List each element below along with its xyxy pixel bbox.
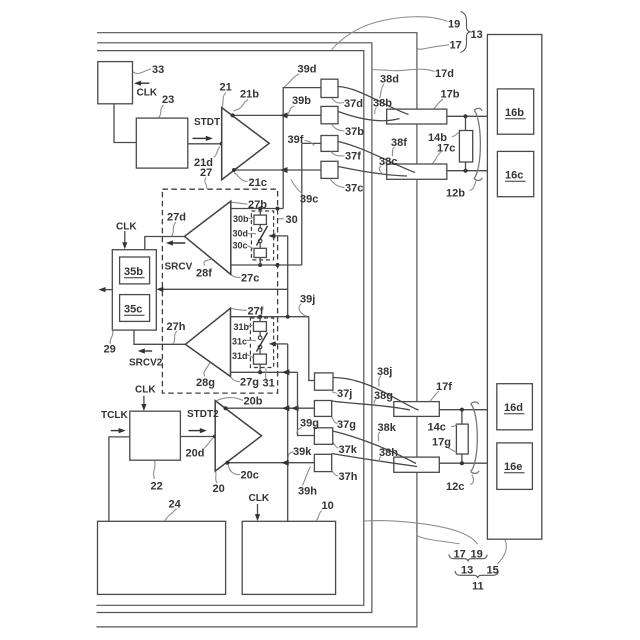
block 16e xyxy=(497,443,533,490)
svg-text:CLK: CLK xyxy=(137,88,158,99)
wire bus line 17d (middle frame) xyxy=(97,43,372,613)
svg-text:31c: 31c xyxy=(232,337,247,347)
block 10 (bottom microcontroller box) xyxy=(242,521,335,594)
wire receiver 27d top input xyxy=(231,208,283,210)
leader 30c xyxy=(247,246,254,250)
leader 38k xyxy=(378,432,380,442)
svg-text:20c: 20c xyxy=(241,470,259,482)
svg-text:30: 30 xyxy=(286,214,298,226)
svg-text:27g: 27g xyxy=(240,377,259,389)
svg-text:10: 10 xyxy=(322,500,334,512)
leader 21c xyxy=(234,173,248,182)
leader 37c xyxy=(330,179,345,188)
leader 37g xyxy=(332,417,338,424)
wire 39d vertical (node V1) xyxy=(283,88,321,209)
leader 37h xyxy=(332,470,339,476)
block 33 xyxy=(98,62,133,104)
svg-text:37f: 37f xyxy=(345,151,361,163)
wire block 33 to block 23 xyxy=(114,104,136,143)
switch box 37f xyxy=(321,136,338,152)
svg-text:39g: 39g xyxy=(300,418,319,430)
CLK arrow into block 29 xyxy=(124,231,126,246)
leader 39d xyxy=(284,74,299,87)
svg-text:39j: 39j xyxy=(300,294,315,306)
leader 37b xyxy=(332,125,345,132)
arrowhead on wire 39c xyxy=(280,167,288,173)
TCLK wire from block 24 up into block 22 xyxy=(109,437,130,521)
STDT arrow xyxy=(193,137,209,139)
leader 14c xyxy=(451,424,457,426)
underline 35b xyxy=(124,277,145,279)
svg-text:35b: 35b xyxy=(124,266,143,278)
svg-text:28g: 28g xyxy=(196,377,215,389)
wire curve 38c: switch 37c to connector 38c xyxy=(338,167,407,177)
wire into block 29 right side (from node 39f net) with arrowhead xyxy=(160,288,288,290)
svg-text:13: 13 xyxy=(471,29,483,41)
svg-text:16c: 16c xyxy=(505,170,523,182)
leader 37f xyxy=(331,152,345,157)
node dots bus 17f/17g xyxy=(460,408,464,412)
svg-text:39k: 39k xyxy=(293,446,312,458)
wire bus 17b to block 15 xyxy=(447,115,488,117)
svg-text:39c: 39c xyxy=(300,194,318,206)
leader 39j xyxy=(299,304,306,317)
leader 29 xyxy=(110,331,113,345)
leader 12b xyxy=(470,181,477,191)
arrowhead on receiver 27h bottom wire xyxy=(282,369,290,375)
svg-text:24: 24 xyxy=(169,499,182,511)
node dot at amp 20 input xyxy=(213,435,217,439)
leader 39f xyxy=(305,141,315,146)
leader 37k xyxy=(333,442,339,449)
svg-text:22: 22 xyxy=(151,481,163,493)
wire curve 38k: switch 37k to connector 38h xyxy=(333,431,416,464)
underbrace under 13 15 xyxy=(455,571,498,578)
leader 17 top xyxy=(417,45,449,49)
block 16b xyxy=(497,89,533,134)
node dots bus 17b/17c xyxy=(463,114,467,118)
block 24 (bottom left box) xyxy=(98,521,226,594)
node dot on amp 20 top slope xyxy=(224,406,228,410)
leader 17 bottom xyxy=(418,536,460,544)
svg-text:20: 20 xyxy=(213,483,225,495)
svg-text:33: 33 xyxy=(152,64,164,76)
leader 39k xyxy=(288,452,293,458)
connector bar 38g xyxy=(394,402,440,417)
switch box 37c xyxy=(321,161,338,178)
svg-text:16e: 16e xyxy=(504,461,522,473)
svg-text:17: 17 xyxy=(454,549,466,561)
switch 31c blade xyxy=(257,333,268,352)
svg-text:15: 15 xyxy=(487,565,499,577)
wire chain 30 xyxy=(259,209,261,216)
leader 27c xyxy=(231,275,240,278)
leader 17g xyxy=(446,446,457,452)
wire 39j: receiver 27h top net down to switch 37j xyxy=(309,317,315,381)
leader 38f xyxy=(392,147,394,156)
SRCV2 direction arrow xyxy=(141,350,152,352)
svg-text:27b: 27b xyxy=(248,199,267,211)
twisted pair loop 12c xyxy=(471,402,479,473)
leader 27 xyxy=(205,178,207,190)
wire curve 38b: switch 37b to connector 38b xyxy=(338,112,399,121)
block 23 xyxy=(136,118,188,168)
resistor 30b xyxy=(254,215,266,224)
svg-text:21c: 21c xyxy=(249,177,267,189)
svg-text:17b: 17b xyxy=(441,89,460,101)
wire bus line 17 (outer frame) xyxy=(97,33,417,627)
node dot on amp 20 bottom slope xyxy=(226,461,230,465)
leader 39b xyxy=(288,106,295,115)
svg-text:12c: 12c xyxy=(446,481,464,493)
svg-text:23: 23 xyxy=(162,94,174,106)
wire vertical node V3 (control/29 net) xyxy=(287,236,289,317)
leader 30 xyxy=(278,218,284,220)
svg-text:31: 31 xyxy=(263,378,275,390)
CLK arrow into block 22 xyxy=(143,396,145,408)
control arrow to switch 31c xyxy=(273,343,288,345)
svg-text:17f: 17f xyxy=(436,381,452,393)
node dot 39c on slope xyxy=(232,168,236,172)
svg-text:11: 11 xyxy=(472,581,484,593)
resistor 31d xyxy=(254,354,267,364)
leader 31d xyxy=(247,355,254,358)
leader 17f xyxy=(430,391,439,401)
node block 15 (right tall box) xyxy=(487,35,541,540)
leader 10 xyxy=(316,511,322,521)
svg-text:37b: 37b xyxy=(345,126,364,138)
switch box 37k xyxy=(314,428,332,445)
wire 39b from amp 21 top slope to switch 37b xyxy=(232,114,321,116)
leader 37j xyxy=(332,392,337,394)
svg-text:38c: 38c xyxy=(379,156,397,168)
dashed block 27 (receiver unit) xyxy=(162,189,277,393)
wire receiver 27d bottom input xyxy=(231,264,302,266)
svg-text:17c: 17c xyxy=(437,143,455,155)
svg-text:19: 19 xyxy=(448,19,460,31)
wire curve 38h: switch 37h to connector 38h xyxy=(332,454,417,467)
resistor 30c xyxy=(254,248,266,257)
svg-text:27h: 27h xyxy=(167,321,186,333)
wire bus line 19 (inner frame) xyxy=(97,51,364,606)
svg-text:30b: 30b xyxy=(233,214,249,224)
svg-text:SRCV: SRCV xyxy=(165,262,193,273)
leader 37d xyxy=(332,98,344,103)
svg-text:13: 13 xyxy=(461,565,473,577)
connector bar 38c xyxy=(387,164,447,179)
svg-text:37c: 37c xyxy=(345,183,363,195)
leader 20 xyxy=(216,472,217,483)
svg-text:31d: 31d xyxy=(232,351,248,361)
leader 39h xyxy=(303,467,311,486)
leader 28f xyxy=(204,259,211,265)
svg-text:37d: 37d xyxy=(344,98,363,110)
connector bar 38b xyxy=(387,109,447,124)
wire 39f to switch 37f xyxy=(302,142,321,144)
wire curve 38g: switch 37g to connector 38g xyxy=(332,401,410,410)
wire block 29 bottom to receiver 27h output xyxy=(134,330,185,344)
termination resistor 14b xyxy=(465,116,467,130)
wire bus 17f to block 15 xyxy=(439,409,487,411)
svg-text:39f: 39f xyxy=(288,134,304,146)
wire curve 38j: switch 37j to connector 38g xyxy=(333,378,419,411)
leader 38d xyxy=(380,84,385,99)
wire from amp 20 bottom slope to switch 37h xyxy=(227,462,314,464)
node dot at amp 21 input xyxy=(220,142,224,146)
svg-text:39d: 39d xyxy=(298,64,317,76)
svg-text:12b: 12b xyxy=(446,188,465,200)
block 29 xyxy=(112,250,156,330)
svg-text:35c: 35c xyxy=(124,304,142,316)
leader 27h xyxy=(173,331,178,344)
dashed box 30 xyxy=(251,211,273,260)
leader 17c xyxy=(433,152,442,163)
wire receiver 27h bottom input xyxy=(231,371,298,373)
leader 15 xyxy=(498,540,507,564)
svg-text:STDT2: STDT2 xyxy=(187,409,219,420)
leader 17b xyxy=(434,99,444,109)
leader 38b xyxy=(375,108,377,115)
svg-text:38k: 38k xyxy=(378,422,397,434)
svg-text:37k: 37k xyxy=(339,444,358,456)
svg-text:27f: 27f xyxy=(248,306,264,318)
switch box 37h xyxy=(314,454,331,471)
switch 31c circles xyxy=(258,336,262,340)
underline 16e xyxy=(504,472,525,474)
leader 30b xyxy=(249,217,254,218)
block 35c xyxy=(120,295,150,322)
node dot 39b on slope xyxy=(231,113,235,117)
leader 33 xyxy=(133,69,151,74)
node dots on receiver 27d wires xyxy=(258,207,262,211)
connector bar 38h xyxy=(394,457,440,472)
leader 22 xyxy=(154,461,156,479)
leader 31b xyxy=(247,325,253,326)
block 35b xyxy=(120,257,150,284)
svg-text:17: 17 xyxy=(450,40,462,52)
switch box 37d xyxy=(321,79,338,97)
TCLK direction arrow xyxy=(111,430,122,432)
receiver op-amp 27h (lower, pointing left) xyxy=(185,308,230,376)
switch box 37j xyxy=(315,373,334,390)
resistor 31b xyxy=(254,322,267,332)
underbrace under 17 19 xyxy=(449,555,487,562)
wire block 29 top to receiver 27d output xyxy=(145,237,185,250)
svg-text:STDT: STDT xyxy=(194,117,220,128)
leader 21b xyxy=(234,100,249,112)
svg-text:38b: 38b xyxy=(373,98,392,110)
wire 39k: receiver 27h bottom net down to switch 37k xyxy=(298,372,315,435)
CLK arrow into block 10 xyxy=(257,504,259,518)
svg-text:27: 27 xyxy=(200,167,212,179)
arrowheads on amp 20 top wire xyxy=(282,405,290,411)
termination resistor 14c xyxy=(461,410,463,424)
svg-text:29: 29 xyxy=(104,344,116,356)
svg-text:30d: 30d xyxy=(233,229,249,239)
twisted pair loop 12b xyxy=(474,108,482,180)
wire chain 31 xyxy=(259,317,261,322)
underline 35c xyxy=(124,314,145,316)
leader 28g xyxy=(204,363,210,377)
block 16c xyxy=(497,151,533,196)
amp 21 (transmitter triangle) xyxy=(222,108,270,180)
switch box 37b xyxy=(321,106,338,123)
underline 16d xyxy=(504,413,525,415)
svg-text:CLK: CLK xyxy=(135,385,156,396)
amp 20 (transmitter triangle) xyxy=(215,401,261,472)
wire bus 17g to block 15 xyxy=(439,462,487,464)
arrowhead on amp 20 bottom wire xyxy=(281,460,289,466)
receiver op-amp 27d (upper, pointing left) xyxy=(185,201,231,274)
leader 30d xyxy=(248,232,256,235)
svg-text:17g: 17g xyxy=(432,437,451,449)
block 16d xyxy=(497,384,533,430)
svg-text:38g: 38g xyxy=(374,390,393,402)
leader 31 xyxy=(265,368,267,379)
leader 24 xyxy=(165,509,177,521)
CLK arrow into block 33 xyxy=(137,82,149,84)
svg-text:31b: 31b xyxy=(234,322,250,332)
leader 27d xyxy=(172,222,177,236)
leader 17d xyxy=(372,69,434,71)
switch box 37g xyxy=(314,401,331,417)
leader 39g xyxy=(297,428,302,434)
leader 39c xyxy=(291,180,302,194)
wire curve 38f: switch 37f to connector 38c xyxy=(338,142,415,173)
svg-text:16d: 16d xyxy=(504,402,523,414)
SRCV direction arrow xyxy=(169,242,185,244)
wire block 22 to amp 20 xyxy=(180,436,215,438)
node dots on receiver 27h wires xyxy=(258,315,262,319)
brace 13 top right xyxy=(461,12,470,53)
block 22 xyxy=(130,411,181,460)
svg-text:28f: 28f xyxy=(196,268,212,280)
leader 12c xyxy=(470,475,473,485)
wire block 23 to amp 21 xyxy=(188,143,222,145)
wire receiver 27h top input xyxy=(231,316,309,318)
svg-text:TCLK: TCLK xyxy=(101,410,128,421)
leader 38h xyxy=(379,457,381,463)
leader 27b xyxy=(232,202,248,204)
svg-text:39b: 39b xyxy=(292,95,311,107)
leader 38g xyxy=(374,400,376,404)
svg-text:27d: 27d xyxy=(167,212,186,224)
leader 14b xyxy=(452,132,459,137)
leader 27g xyxy=(231,377,240,382)
svg-text:37h: 37h xyxy=(339,471,358,483)
switch 30d blade xyxy=(257,226,268,246)
dashed box 31 xyxy=(250,318,273,368)
svg-text:38d: 38d xyxy=(380,74,399,86)
underline 16c xyxy=(505,180,526,182)
leader 19 bottom xyxy=(365,521,478,545)
control arrow to switch 30d xyxy=(272,235,288,237)
svg-text:19: 19 xyxy=(471,549,483,561)
leader 20c xyxy=(228,464,240,475)
svg-text:37j: 37j xyxy=(337,388,352,400)
wire 39c from amp 21 bottom slope to switch 37c xyxy=(234,169,321,171)
leader 27f xyxy=(231,309,247,311)
arrowhead on wire 39b xyxy=(280,112,288,118)
leader 21 xyxy=(222,93,226,108)
svg-text:20b: 20b xyxy=(244,396,263,408)
STDT2 direction arrow xyxy=(189,430,204,432)
leader 38j xyxy=(379,376,381,387)
switch 30d circles xyxy=(258,228,262,232)
arrow out of block 29 to the left xyxy=(102,289,113,291)
svg-text:14c: 14c xyxy=(428,422,446,434)
leader 20b xyxy=(216,398,243,401)
svg-text:21: 21 xyxy=(220,82,232,94)
svg-text:17d: 17d xyxy=(435,68,454,80)
svg-text:21b: 21b xyxy=(240,89,259,101)
svg-text:30c: 30c xyxy=(233,241,248,251)
svg-text:16b: 16b xyxy=(505,107,524,119)
wire bus 17c to block 15 xyxy=(447,170,488,172)
svg-text:20d: 20d xyxy=(186,448,205,460)
leader 19 top xyxy=(332,17,448,50)
wire curve 38d: switch 37d to connector 38b xyxy=(338,87,408,115)
leader 38c xyxy=(379,166,382,174)
wire from amp 20 top slope to switch 37g xyxy=(225,407,314,409)
svg-text:CLK: CLK xyxy=(116,222,137,233)
wire vertical node V5 (control net down to block 10) xyxy=(287,344,289,521)
leader 21d xyxy=(214,147,221,158)
wire vertical from 39f down (node V2) xyxy=(301,143,303,265)
leader 23 xyxy=(159,105,164,118)
svg-text:38h: 38h xyxy=(379,447,398,459)
leader 31c xyxy=(247,339,256,342)
svg-text:37g: 37g xyxy=(337,419,356,431)
svg-text:39h: 39h xyxy=(298,486,317,498)
svg-text:CLK: CLK xyxy=(249,493,270,504)
underline 16b xyxy=(505,118,526,120)
svg-text:SRCV2: SRCV2 xyxy=(129,358,163,369)
svg-text:38j: 38j xyxy=(377,366,392,378)
leader 20d xyxy=(204,438,214,449)
svg-text:27c: 27c xyxy=(241,273,259,285)
svg-text:38f: 38f xyxy=(391,137,407,149)
